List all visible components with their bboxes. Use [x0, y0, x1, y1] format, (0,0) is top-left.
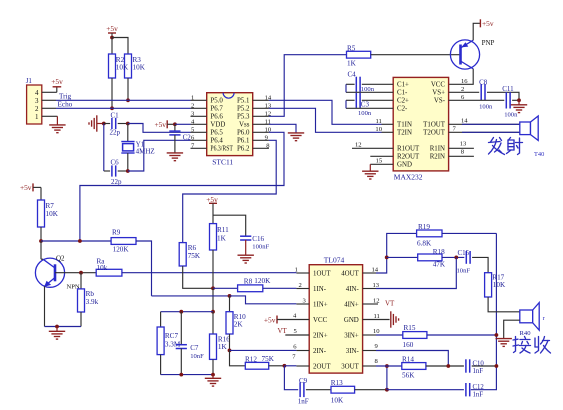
svg-text:3: 3: [35, 97, 39, 105]
wire R12 to pin7 node: [269, 365, 285, 367]
svg-text:Trig: Trig: [59, 92, 72, 100]
svg-text:P6.5: P6.5: [210, 130, 223, 137]
wire U-STC pin10 to Q2 collector node (long net): [80, 132, 284, 241]
junction pin8 row: [385, 364, 389, 368]
junction C7 bottom: [179, 373, 183, 377]
svg-text:100nF: 100nF: [252, 243, 269, 250]
MAX232 R2OUT stub: [370, 155, 393, 157]
wire U-STC pin14 to MAX232 T1IN: [269, 100, 382, 124]
svg-text:10K: 10K: [331, 396, 344, 404]
junction C1 left rail: [102, 122, 106, 126]
wire left rail C1-C6: [103, 124, 105, 172]
wire speaker R40 to ground: [504, 320, 520, 338]
resistor Ra 10k: [96, 269, 122, 276]
svg-text:Echo: Echo: [58, 100, 73, 108]
capacitor C16 100nF: [240, 235, 251, 237]
svg-text:C3: C3: [361, 101, 370, 109]
svg-text:R14: R14: [402, 356, 414, 364]
svg-text:47K: 47K: [433, 261, 446, 269]
wire pin13 to R18/C15 node: [376, 257, 456, 288]
svg-text:RC7: RC7: [165, 332, 179, 340]
svg-text:100n: 100n: [358, 110, 372, 117]
svg-text:3OUT: 3OUT: [341, 363, 359, 370]
svg-text:P5.1: P5.1: [237, 98, 250, 105]
svg-text:10: 10: [375, 126, 382, 133]
svg-text:10k: 10k: [97, 264, 108, 272]
svg-text:1nF: 1nF: [298, 397, 309, 405]
svg-text:GND: GND: [344, 317, 359, 324]
wire C15 to R17: [472, 257, 488, 272]
junction R3/Trig: [126, 98, 130, 102]
svg-text:16: 16: [461, 78, 468, 85]
connector J1: [27, 85, 42, 124]
junction R14/C10/pin9: [446, 364, 450, 368]
svg-text:4: 4: [35, 89, 39, 97]
junction crystal top: [126, 122, 130, 126]
wire R13 to pin8 node: [355, 389, 387, 391]
svg-text:1nF: 1nF: [473, 368, 484, 375]
wire pin3 jog: [230, 296, 297, 304]
wire R18 row: [387, 256, 418, 258]
junction pin7 node: [283, 364, 287, 368]
IC MAX232 body: [393, 77, 448, 170]
power +5v (VDD): [166, 120, 168, 128]
svg-text:1: 1: [35, 113, 39, 121]
svg-text:56K: 56K: [402, 372, 415, 380]
svg-text:2OUT: 2OUT: [313, 363, 331, 370]
svg-text:+5v: +5v: [20, 183, 32, 192]
svg-text:MAX232: MAX232: [394, 172, 423, 181]
wire R18 to C15: [442, 256, 464, 258]
svg-text:+5v: +5v: [482, 19, 494, 28]
svg-text:T2OUT: T2OUT: [423, 130, 446, 137]
TL074 pin8 stub: [363, 365, 376, 367]
resistor R18 47K: [418, 254, 442, 261]
wire U-STC pin9 to R6 top: [183, 140, 277, 242]
MAX232 pin15 GND stub: [370, 163, 393, 165]
svg-text:C9: C9: [299, 377, 308, 385]
MAX232 pin12 R1OUT stub: [352, 147, 393, 149]
svg-text:+5v: +5v: [51, 77, 63, 86]
wire pin7 node down to C9: [284, 366, 298, 390]
svg-text:2IN+: 2IN+: [313, 332, 328, 339]
svg-text:2K: 2K: [234, 321, 244, 329]
svg-text:100n: 100n: [361, 86, 375, 93]
svg-text:75K: 75K: [262, 355, 275, 363]
svg-text:R2IN: R2IN: [430, 154, 445, 161]
TL074 pin2 stub: [296, 288, 309, 290]
U-STC pin 2 stub: [191, 107, 207, 109]
wire R8 to TL074 pin2: [263, 287, 297, 289]
crystal Y1 4MHZ: [127, 124, 129, 142]
TL074 pin1 stub: [296, 272, 309, 274]
svg-text:C11: C11: [502, 85, 514, 93]
svg-text:T40: T40: [534, 151, 544, 158]
capacitor C7 10nF: [180, 312, 182, 345]
wire crystal top to U-STC pin5 (XTAL): [128, 124, 191, 133]
junction long net tap: [78, 239, 82, 243]
svg-text:75K: 75K: [188, 252, 201, 260]
U-STC pin 3 stub: [191, 115, 207, 117]
capacitor C3 100n (C2+/C2-): [346, 99, 355, 101]
svg-text:10K: 10K: [133, 64, 146, 72]
wire MAX232 T1OUT pin14 to speaker: [449, 123, 520, 125]
svg-text:14: 14: [461, 118, 468, 125]
resistor R16 1K: [212, 312, 214, 334]
svg-text:R1OUT: R1OUT: [397, 146, 420, 153]
svg-text:VDD: VDD: [210, 122, 225, 129]
wire pin7 row: [284, 365, 296, 367]
capacitor C8 100n: [480, 84, 482, 100]
svg-text:TL074: TL074: [324, 255, 345, 264]
TL074 pin10 stub: [363, 334, 376, 336]
TL074 pin5 stub / net VT: [285, 334, 309, 336]
ground (analog rail): [212, 375, 214, 379]
U-STC pin 8 stub: [253, 147, 269, 149]
svg-text:1K: 1K: [347, 60, 357, 68]
svg-text:+5v: +5v: [154, 120, 166, 129]
svg-text:R9: R9: [112, 228, 121, 236]
svg-text:10: 10: [373, 328, 380, 335]
capacitor C9 1nF: [299, 382, 301, 397]
MAX232 pin10 T2IN stub: [382, 131, 394, 133]
wire pin10 to R15: [376, 334, 403, 336]
wire C8 to GND corner: [487, 92, 519, 100]
svg-text:VT: VT: [385, 299, 395, 307]
svg-text:13: 13: [373, 282, 380, 289]
wire +5v to VDD pin4: [175, 123, 191, 125]
speaker T40 (transmit transducer): [520, 122, 531, 135]
TL074 pin13 stub: [363, 288, 376, 290]
TL074 pin9 stub: [363, 350, 376, 352]
svg-text:4OUT: 4OUT: [341, 270, 359, 277]
svg-text:1IN-: 1IN-: [313, 286, 327, 293]
wire C11 to GND: [512, 99, 519, 101]
power +5v (TL074 VCC pin4): [276, 316, 278, 324]
svg-text:GND: GND: [397, 162, 412, 169]
svg-text:10K: 10K: [116, 64, 129, 72]
IC STC11 (U-STC) body: [207, 93, 253, 156]
junction R11/R8: [211, 286, 215, 290]
svg-text:120K: 120K: [254, 277, 271, 285]
svg-text:15: 15: [376, 158, 383, 165]
svg-text:1K: 1K: [217, 234, 227, 242]
U-STC pin 11 stub: [253, 123, 269, 125]
svg-text:VT: VT: [278, 327, 288, 335]
resistor R17 10K: [485, 273, 492, 297]
svg-text:2: 2: [299, 282, 302, 289]
svg-text:120K: 120K: [113, 245, 130, 253]
wire MAX232 VS+ pin2: [449, 91, 480, 93]
junction +5v split: [110, 36, 114, 40]
svg-text:J1: J1: [26, 77, 33, 85]
svg-text:1nF: 1nF: [473, 392, 484, 399]
svg-text:12: 12: [355, 142, 362, 149]
svg-text:4MHZ: 4MHZ: [136, 147, 155, 155]
ground (pin11, sideways): [390, 311, 392, 327]
U-STC pin 6 stub: [191, 139, 207, 141]
svg-text:R5: R5: [347, 45, 356, 53]
svg-text:1: 1: [295, 267, 298, 274]
resistor R19 6.8K: [417, 230, 442, 237]
wire pin14 to R19/R18 node: [376, 233, 417, 273]
svg-text:R40: R40: [520, 330, 532, 337]
label JieShou (receive) chinese text: [513, 337, 531, 354]
svg-text:C8: C8: [479, 78, 488, 86]
svg-text:22p: 22p: [110, 129, 121, 137]
wire R17 bottom to speaker R40: [488, 297, 520, 312]
resistor R10 2K: [229, 296, 231, 312]
U-STC pin 5 stub: [191, 131, 207, 133]
wire Q2 collector: [40, 241, 42, 259]
svg-text:2: 2: [35, 105, 39, 113]
TL074 pin14 stub: [363, 272, 376, 274]
U-STC pin 14 stub: [253, 99, 269, 101]
svg-text:4IN-: 4IN-: [346, 286, 360, 293]
svg-text:10nF: 10nF: [190, 353, 204, 360]
svg-text:Rb: Rb: [86, 290, 95, 298]
svg-text:12: 12: [373, 297, 380, 304]
ground (J1): [49, 124, 65, 126]
svg-text:R13: R13: [331, 379, 343, 387]
resistor R11 1K: [212, 203, 214, 223]
wire R19 right to output column: [442, 232, 496, 234]
svg-text:1OUT: 1OUT: [313, 270, 331, 277]
junction R15/output column: [495, 333, 499, 337]
svg-text:R1IN: R1IN: [430, 146, 445, 153]
svg-text:P6.4: P6.4: [210, 138, 223, 145]
resistor R5 1K: [347, 51, 371, 58]
resistor R7 10K: [40, 187, 42, 200]
junction R10 top: [228, 294, 232, 298]
svg-text:C2+: C2+: [397, 98, 409, 105]
U-STC pin 13 stub: [253, 107, 269, 109]
junction base/Rb: [79, 271, 83, 275]
wire C9 to R13: [306, 389, 331, 391]
wire R8 row: [213, 287, 238, 289]
svg-text:C16: C16: [252, 235, 264, 243]
wire emitter rail: [45, 326, 82, 328]
ground (C8/C11): [518, 100, 520, 105]
wire output column (vertical bus): [471, 233, 497, 389]
capacitor C6 22p: [104, 170, 110, 172]
svg-text:C12: C12: [473, 384, 485, 391]
wire feedback node up to pin8 row: [386, 366, 388, 390]
svg-text:R11: R11: [217, 226, 229, 234]
svg-text:3IN-: 3IN-: [346, 348, 360, 355]
svg-text:R6: R6: [188, 244, 197, 252]
wire Ra to TL074 pin1 (1OUT): [122, 272, 297, 274]
svg-text:VS-: VS-: [434, 98, 446, 105]
svg-text:VS+: VS+: [432, 90, 445, 97]
MAX232 pin11 T1IN stub: [382, 123, 394, 125]
wire J1 pin4 to +5v: [42, 91, 57, 93]
svg-text:STC11: STC11: [212, 158, 233, 167]
svg-text:10nF: 10nF: [457, 267, 471, 274]
svg-text:11: 11: [374, 313, 380, 320]
wire RC7/C7 bottom rail: [161, 374, 213, 376]
svg-text:2: 2: [191, 102, 194, 109]
junction VS caps ground: [517, 98, 521, 102]
svg-text:160: 160: [403, 341, 414, 349]
svg-text:R12: R12: [245, 355, 257, 363]
junction VDD/C2: [173, 122, 177, 126]
wire C10 to output column: [472, 365, 497, 367]
svg-text:R7: R7: [46, 202, 55, 210]
capacitor C2 (VDD decoupling): [174, 124, 176, 131]
svg-text:T1OUT: T1OUT: [423, 122, 446, 129]
capacitor C1 22p: [104, 123, 110, 125]
svg-text:+5v: +5v: [264, 316, 276, 325]
svg-text:VCC: VCC: [313, 317, 328, 324]
wire MAX232 T2OUT pin7 to speaker: [449, 131, 520, 133]
wire RC7/C7 top rail: [161, 311, 213, 313]
resistor Rb 3.9k: [80, 273, 82, 289]
resistor R3: [125, 54, 132, 78]
wire pin8 row to R14: [376, 365, 402, 367]
wire Q-PNP collector to MAX232 VCC pin16: [449, 69, 474, 85]
power +5v (R2/R3 pull-ups): [108, 32, 116, 34]
svg-text:P6.6: P6.6: [210, 114, 223, 121]
ground (C16): [245, 240, 247, 255]
svg-text:C2: C2: [183, 133, 192, 141]
svg-text:100n: 100n: [479, 103, 493, 110]
junction emitter rail ground tap: [55, 325, 59, 329]
svg-text:13: 13: [460, 140, 467, 147]
svg-text:C1+: C1+: [397, 82, 409, 89]
wire R9 net to R10/pin3: [152, 295, 230, 297]
speaker R40 (receive transducer): [520, 310, 533, 323]
U-STC pin 1 stub: [191, 99, 207, 101]
svg-text:C6: C6: [111, 159, 120, 167]
svg-text:4IN+: 4IN+: [344, 301, 359, 308]
resistor R2: [111, 38, 113, 55]
junction R10 bottom / pin6: [228, 349, 232, 353]
wire J1 pin1 to ground: [42, 115, 58, 117]
junction R18 tap: [385, 256, 389, 260]
svg-text:1K: 1K: [218, 343, 228, 351]
svg-text:P6.1: P6.1: [237, 138, 250, 145]
wire U-STC pin12 to R5: [269, 55, 347, 117]
svg-text:R8: R8: [244, 278, 253, 286]
svg-text:P6.3/RST: P6.3/RST: [210, 146, 233, 153]
svg-text:C1: C1: [111, 111, 120, 119]
svg-text:T1IN: T1IN: [397, 122, 412, 129]
wire R9 right to pin3 net: [136, 241, 152, 296]
U-STC pin 7 stub: [191, 147, 207, 149]
wire crystal bottom to U-STC pin6 (XTAL): [128, 140, 191, 171]
svg-text:PNP: PNP: [482, 39, 495, 47]
junction R2/Echo: [110, 106, 114, 110]
ground (MAX232 GND): [369, 164, 371, 171]
junction C7 top: [179, 310, 183, 314]
ground (Vss): [288, 132, 304, 134]
svg-text:Q2: Q2: [56, 255, 65, 263]
wire R10 bottom to TL074 pin6: [230, 349, 297, 351]
svg-text:Vss: Vss: [239, 122, 250, 129]
wire R14 to C10: [426, 365, 464, 367]
ground (C2): [167, 152, 183, 154]
resistor R12 75K: [245, 362, 268, 369]
resistor R15 160: [403, 332, 427, 339]
svg-text:C1-: C1-: [397, 90, 408, 97]
transistor Q-PNP: [450, 40, 479, 69]
svg-text:3IN+: 3IN+: [344, 332, 359, 339]
power +5v (J1): [56, 87, 58, 93]
svg-text:R15: R15: [404, 324, 416, 332]
svg-text:10K: 10K: [46, 210, 59, 218]
TL074 pin12 stub / net VT: [363, 303, 378, 305]
U-STC pin 9 stub: [253, 139, 269, 141]
svg-text:VCC: VCC: [431, 82, 446, 89]
svg-text:P5.2: P5.2: [237, 106, 250, 113]
svg-text:C15: C15: [458, 249, 470, 257]
svg-text:+5v: +5v: [106, 24, 118, 33]
resistor R13 10K: [331, 386, 355, 393]
wire net Echo (J1.2 to U-STC pin2): [42, 107, 56, 109]
wire collector node to R9: [41, 240, 111, 242]
wire R11 to RC7 rail: [212, 288, 214, 311]
MAX232 pin8 R2IN stub: [449, 155, 474, 157]
svg-text:P6.0: P6.0: [237, 130, 250, 137]
wire U-STC pin13 to MAX232 T2IN: [269, 108, 382, 132]
wire C12 row: [387, 389, 464, 391]
wire pin9 to R14/C10 node: [376, 351, 448, 367]
wire Q-PNP emitter to +5v: [473, 23, 480, 40]
wire +5v branch to C16: [213, 215, 246, 236]
svg-text:C2-: C2-: [397, 106, 408, 113]
TL074 pin11 stub: [363, 319, 390, 321]
junction R16 bottom: [211, 373, 215, 377]
capacitor C10 1nF: [465, 359, 467, 372]
resistor R14 56K: [402, 363, 426, 370]
resistor R9 120K: [111, 238, 136, 245]
wire MAX232 VS- pin6: [449, 99, 505, 101]
TL074 pin7 stub: [296, 365, 309, 367]
svg-text:2: 2: [461, 86, 464, 93]
power +5v (R7): [32, 183, 34, 191]
wire R5 to Q-PNP base: [371, 54, 460, 56]
label FaShe (transmit) chinese text: [489, 138, 523, 155]
U-STC pin 4 stub: [191, 123, 207, 125]
svg-text:100n: 100n: [504, 111, 518, 118]
wire +5v to R3 top: [112, 38, 128, 55]
svg-text:P6.2: P6.2: [237, 146, 250, 153]
junction R13/C12 node: [385, 388, 389, 392]
power +5v (PNP): [479, 19, 481, 27]
svg-text:P5.0: P5.0: [210, 98, 223, 105]
capacitor C11 100n: [505, 92, 507, 108]
ground (R40): [496, 338, 512, 340]
wire net Trig (J1.3 to U-STC pin1): [42, 99, 56, 101]
capacitor C15 10nF: [465, 251, 467, 264]
junction R7/Q2 collector: [39, 239, 43, 243]
svg-text:C4: C4: [348, 71, 357, 79]
svg-text:+5v: +5v: [206, 195, 218, 204]
svg-text:P5.3: P5.3: [237, 114, 250, 121]
TL074 pin6 stub: [296, 350, 309, 352]
svg-text:P6.7: P6.7: [210, 106, 223, 113]
U-STC pin 12 stub: [253, 115, 269, 117]
U-STC pin 10 stub: [253, 131, 269, 133]
wire R10 node down to R12: [230, 350, 246, 365]
wire Q2 base row: [55, 272, 96, 274]
capacitor C4 100n (C1+/C1-): [346, 83, 355, 85]
MAX232 pin13 R1IN stub: [449, 147, 474, 149]
svg-text:3.9k: 3.9k: [86, 298, 99, 306]
svg-text:11: 11: [376, 118, 382, 125]
ground (crystal, sideways): [96, 115, 98, 131]
